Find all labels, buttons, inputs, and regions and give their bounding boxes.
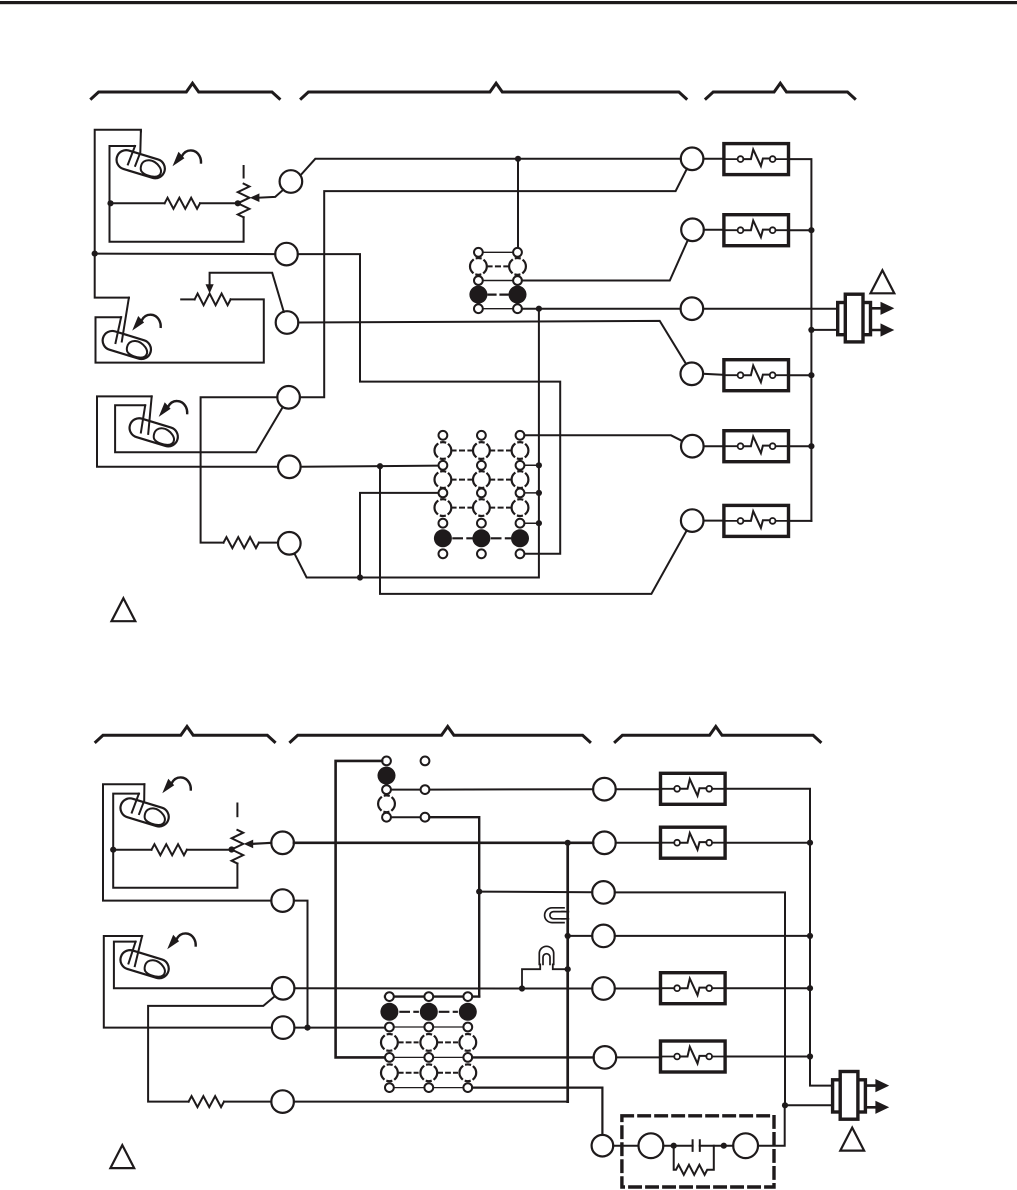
node: timer left tap [671, 1143, 677, 1149]
node: connector lower junction [782, 1102, 788, 1108]
node: lamp2 left tap [519, 985, 525, 991]
wire: wiper to terminal T1 [252, 843, 272, 844]
resistor (heat fixed) [165, 198, 200, 209]
wire: matrix1 row5 to terminal C [522, 308, 681, 310]
wire: capacitor to timer C [700, 1145, 733, 1147]
wire: terminal C to connector [703, 308, 838, 310]
indicator lamp 2 [522, 946, 568, 988]
wire: matrix2 row3 stub [524, 464, 539, 466]
resistor (heat fixed B) [152, 844, 187, 855]
wire: anticipator B1 to bus2 [725, 789, 833, 1086]
bulb B1 electrode 2 [132, 794, 139, 813]
page top rule [0, 1, 1017, 4]
link row1 [483, 251, 513, 253]
wire: anticipator B4 to bus2 [725, 1056, 810, 1058]
fixed contacts row5 [439, 489, 448, 498]
dash links row6 [453, 507, 510, 509]
timer circle B [639, 1133, 664, 1158]
wire: bulb1 outer electrode loop [95, 130, 141, 254]
node: fan wire tap [377, 463, 383, 469]
indicator lamp 1 [545, 908, 569, 923]
wire: terminal A to anticipator 1 [703, 158, 724, 160]
node: bulb loop junction [92, 251, 98, 257]
wire: anticipator B2 to bus2 [725, 842, 810, 844]
wire: terminal 2 left [95, 253, 276, 256]
node: lamp2 right tap [565, 966, 571, 972]
link row7 [394, 1087, 464, 1089]
fixed contacts row5 [385, 1053, 394, 1062]
potentiometer B wiper arrow [244, 840, 254, 849]
terminal D [681, 363, 704, 386]
dash link row4 [489, 294, 508, 296]
wire: bulb2 inner loop [96, 299, 264, 362]
wire: matrix1 row3 to terminal B [522, 240, 688, 281]
wire: bulb B2 outer loop to terminal T4 [104, 936, 272, 1028]
terminal R6 [594, 1046, 617, 1069]
wire: to heat resistor B [113, 849, 151, 851]
node: pot B tap [229, 846, 235, 852]
wiper row2 closed [378, 767, 396, 785]
wire: resistor to potentiometer [200, 202, 238, 204]
wire: terminal T2 right drop [294, 901, 308, 1028]
wire: to heat resistor [111, 202, 165, 204]
mercury switch bulb 3 (fan) [127, 416, 180, 449]
link row5 [483, 308, 513, 310]
fixed contacts row7 [439, 519, 448, 528]
node: row A tap [515, 156, 521, 162]
terminal 4 [277, 386, 300, 409]
capacitor [693, 1140, 700, 1151]
terminal R5 [592, 977, 615, 1000]
potentiometer 1 (heat setpoint) [238, 184, 250, 218]
bulb 1 electrode 2 [128, 146, 135, 164]
mercury switch bulb B1 (heat) [118, 796, 171, 829]
wire: anticipator 2 to bus [789, 229, 812, 231]
note triangle 3 [110, 1145, 134, 1168]
node: bus2 tap R2 [807, 840, 813, 846]
wiper row2 closed [380, 1003, 398, 1021]
fixed contacts row1 [439, 431, 448, 440]
wire: R2 to anticipator B2 [616, 842, 662, 844]
dash links row2 [400, 1011, 456, 1013]
dash links row8 [453, 537, 510, 539]
wire: terminal F to anticipator 5 [704, 520, 724, 522]
terminal R3 [592, 881, 615, 904]
wire: terminal T4 to matrix row3 [294, 1027, 385, 1029]
fixed contacts row1 [474, 248, 483, 257]
heat anticipator 5 [724, 505, 789, 536]
wire: RB to timer box [613, 1145, 638, 1147]
node: R4 tap [565, 933, 571, 939]
potentiometer 2 (cool setpoint) [195, 294, 231, 306]
timer dashed enclosure [622, 1116, 774, 1187]
node: row3 stub [536, 462, 542, 468]
node: B1 resistor tap [110, 847, 116, 853]
node: T2/T4 junction [304, 1025, 310, 1031]
dash links row4 [453, 479, 510, 481]
mercury switch bulb 1 (heat) [114, 148, 167, 181]
terminal T5 [271, 1090, 294, 1113]
wire: timer C to connector riser [758, 1105, 785, 1145]
wire: anticipator 4 to bus [789, 445, 812, 447]
wire: wiper to terminal 1 [258, 190, 283, 198]
node: bus2 tap R5 [807, 985, 813, 991]
node: timer right tap [721, 1143, 727, 1149]
wire: pot2 wiper to terminal 3 [210, 273, 284, 312]
bulb 3 electrode 1 [148, 396, 152, 434]
wiper row4 dashed [381, 1034, 398, 1051]
connector plug lower [833, 1072, 890, 1120]
heat anticipator 2 [724, 215, 789, 246]
wire: anticipator 5 to bus end [789, 520, 812, 522]
node: W2 top [536, 306, 542, 312]
wire: R6 to anticipator B4 [616, 1056, 661, 1058]
system switch matrix top (2 col) [378, 757, 430, 822]
node: T1 bus tap [565, 840, 571, 846]
node: bus2 tap R4 [807, 933, 813, 939]
contact wiper row2 (dashed) [470, 258, 487, 275]
node: potentiometer tap [235, 200, 241, 206]
fixed contacts row3 [382, 785, 391, 794]
link row3 [391, 789, 421, 791]
heat anticipator B4 [661, 1041, 726, 1072]
bulb B2 electrode 1 [135, 936, 142, 966]
wiper row2 dashed [435, 442, 452, 459]
heat anticipator 3 [724, 360, 789, 391]
wire: terminal 3 to terminal D [298, 321, 686, 364]
note triangle 1 [112, 598, 136, 621]
link row1 (bold) [385, 995, 479, 997]
heat anticipator 4 [724, 431, 789, 462]
terminal C [681, 297, 704, 320]
wire: matrix2 row5 stub [524, 492, 539, 494]
fixed contacts row7 [385, 1083, 394, 1092]
terminal 1 [280, 170, 303, 193]
link row3 [394, 1026, 464, 1028]
wire: resistor to terminal 6 [259, 542, 278, 544]
wiper row4 dashed [435, 471, 452, 488]
node: bus tap connector [808, 327, 814, 333]
wire: terminal E to anticipator 4 [704, 445, 724, 447]
heat anticipator B3 [661, 973, 726, 1004]
wire: terminal T1 to R2 (bold) [294, 841, 593, 844]
fixed contacts row9 [439, 549, 448, 558]
wire: R5 to anticipator B3 [615, 988, 661, 990]
wire: tap to terminal R4 [568, 935, 593, 937]
fixed contacts row3 [474, 276, 483, 285]
resistor (fan) [224, 537, 259, 548]
bulb 2 electrode 2 [116, 317, 122, 343]
wire: resistor to terminal T5 [224, 1101, 271, 1103]
fan switch matrix bottom (3 col) [380, 992, 479, 1092]
wire: W2 tap riser to selector row5 [360, 493, 439, 578]
fixed contacts row5 [382, 813, 391, 822]
bulb 1 electrode 1 [135, 131, 141, 166]
fixed contacts row1 [385, 992, 394, 1001]
terminal F [681, 509, 704, 532]
selector switch matrix 1 [469, 248, 526, 313]
brace: subbase section [301, 83, 686, 98]
wire: fan tap drop [380, 466, 687, 594]
wire: resistor B to potentiometer B [187, 849, 232, 851]
terminal 6 [278, 532, 301, 555]
wire: top matrix row5 drop (bold) [429, 817, 479, 996]
wiper row8 closed [434, 529, 452, 547]
terminal T1 [271, 832, 294, 855]
wiper row4 dashed [378, 795, 395, 812]
potentiometer B (heat setpoint) [232, 830, 244, 864]
node: W2 bus bottom tap [357, 574, 363, 580]
terminal T4 [272, 1016, 295, 1039]
rotation arrow bulb B1 [162, 777, 191, 793]
wire: matrix2 row1 to terminal E [524, 435, 682, 441]
dash link row2 [489, 265, 508, 267]
link row3 [483, 280, 513, 282]
bottom terminal RB [592, 1135, 614, 1157]
wire: anticipator 1 to bus [789, 159, 812, 521]
wire: T1 bus vertical (bold) [566, 843, 569, 1102]
bulb 2 electrode 1 [122, 298, 129, 342]
dash links row6 [400, 1072, 457, 1074]
dash links row4 [400, 1041, 457, 1043]
wire: top matrix row3 to terminal R1 [429, 788, 593, 790]
wiper row6 dashed [381, 1064, 398, 1081]
heat anticipator B1 [661, 773, 726, 804]
link row5 [391, 816, 421, 818]
terminal R4 [592, 925, 615, 948]
wire: bulb3 outer loop to terminal 5 [97, 396, 278, 466]
terminal 2 [275, 243, 298, 266]
note triangle 2 [871, 270, 895, 293]
wire: terminal 4 left leg [201, 397, 278, 542]
wire: bulb2 outer electrode [95, 254, 129, 298]
wire: terminal 6 to W2 bus [294, 309, 539, 578]
wire: R1 to anticipator B1 [616, 788, 662, 790]
wire: terminal D to anticipator 3 [703, 374, 724, 375]
wire: timer B to capacitor [663, 1145, 692, 1147]
wire: terminal 2 right stepped [298, 254, 560, 554]
timer parallel resistor [674, 1146, 714, 1175]
wire: matrix row7 to bottom terminal [472, 1088, 602, 1135]
wire: bulb B2 inner to terminal T3 [114, 942, 272, 989]
potentiometer 1 wiper arrow [250, 193, 260, 202]
wire: terminal 4 right riser to terminal A [300, 169, 687, 398]
terminal A [681, 148, 704, 171]
potentiometer B top stub [236, 804, 238, 817]
rotation arrow bulb 2 [132, 315, 161, 331]
node: resistor tap [107, 200, 113, 206]
wire: terminal 5 to selector row3 [301, 466, 439, 467]
fixed contacts row5 [474, 304, 483, 313]
wire: matrix2 row7 stub [524, 522, 539, 524]
brace: thermostat section [91, 83, 279, 98]
wire: G tap to terminal R3 [479, 891, 592, 894]
lamp 1 leads [562, 912, 568, 919]
wire: top matrix row1 left riser (bold) [336, 761, 385, 1058]
wire: junction to connector lower [785, 1104, 833, 1106]
bulb 3 electrode 2 [141, 405, 145, 432]
terminal B [681, 219, 704, 242]
timer circle C [733, 1133, 758, 1158]
wire: anticipator 3 to bus [789, 374, 812, 376]
wire: bus to connector lower [811, 329, 837, 331]
terminal R1 [593, 778, 616, 801]
wire: terminal T3 to resistor loop [148, 996, 275, 1102]
wire: bulb1 inner electrode branch [110, 146, 244, 242]
wire: matrix row5 to terminal R6 (bold) [472, 1056, 593, 1058]
brace: subbase section B [291, 727, 590, 742]
heat anticipator 1 [724, 144, 789, 175]
fixed contacts row3 [385, 1023, 394, 1032]
node: G drop tap [476, 889, 482, 895]
link row5 [394, 1056, 464, 1058]
node: bus tap D [808, 372, 814, 378]
lamp 2 leads [522, 964, 568, 988]
brace: thermostat section B [96, 727, 275, 742]
note triangle 4 [840, 1128, 864, 1151]
contact wiper row4 (closed) [469, 286, 487, 304]
dash links row2 [453, 450, 510, 452]
potentiometer 1 top stub [243, 166, 245, 178]
node: bus tap E [808, 443, 814, 449]
wire: terminal 1 to bus row A [300, 159, 680, 176]
wire: row A tap down to selector [517, 159, 519, 248]
fixed contacts row3 [439, 461, 448, 470]
wire: anticipator B3 to bus2 [725, 987, 810, 989]
rotation arrow bulb 3 [159, 401, 188, 417]
node: row5 stub [536, 490, 542, 496]
mercury switch bulb B2 (cool) [118, 948, 171, 981]
node: bus2 tap R6 [807, 1053, 813, 1059]
bulb B2 electrode 2 [129, 942, 136, 964]
rotation arrow bulb 1 [173, 150, 202, 166]
wire: R4 to bus2 [615, 935, 810, 937]
wire: R3 right drop [615, 892, 785, 1105]
terminal 5 [278, 456, 301, 479]
rotation arrow bulb B2 [167, 933, 196, 949]
wire: terminal B to anticipator 2 [704, 229, 724, 231]
heat anticipator B2 [661, 827, 726, 858]
wire: terminal T3 to terminal R5 [294, 987, 592, 989]
potentiometer 2 wiper arrow [206, 284, 214, 293]
fixed contacts row1 [382, 757, 391, 766]
wiper row6 dashed [435, 499, 452, 516]
potentiometer 2 left stub [181, 298, 194, 300]
wire: bus to terminal T5 [294, 1101, 568, 1103]
selector switch matrix 2 [434, 431, 529, 558]
brace: system section B [615, 727, 820, 742]
wire: bulb3 inner loop to terminal 4 [115, 405, 283, 452]
terminal E [681, 435, 704, 458]
mercury switch bulb 2 (cool) [100, 329, 153, 362]
node: row7 stub [536, 520, 542, 526]
terminal T3 [272, 977, 295, 1000]
resistor (cool jumper) [189, 1096, 224, 1107]
wire: bulb B1 inner loop [113, 794, 237, 888]
connector plug upper [838, 294, 895, 342]
brace: system section [706, 83, 855, 98]
terminal R2 [593, 832, 616, 855]
wire: bulb B1 outer loop to terminal T2 [103, 784, 271, 900]
bulb B1 electrode 1 [139, 784, 144, 814]
terminal 3 [276, 311, 299, 334]
node: bus tap B [808, 227, 814, 233]
terminal T2 [271, 889, 294, 912]
